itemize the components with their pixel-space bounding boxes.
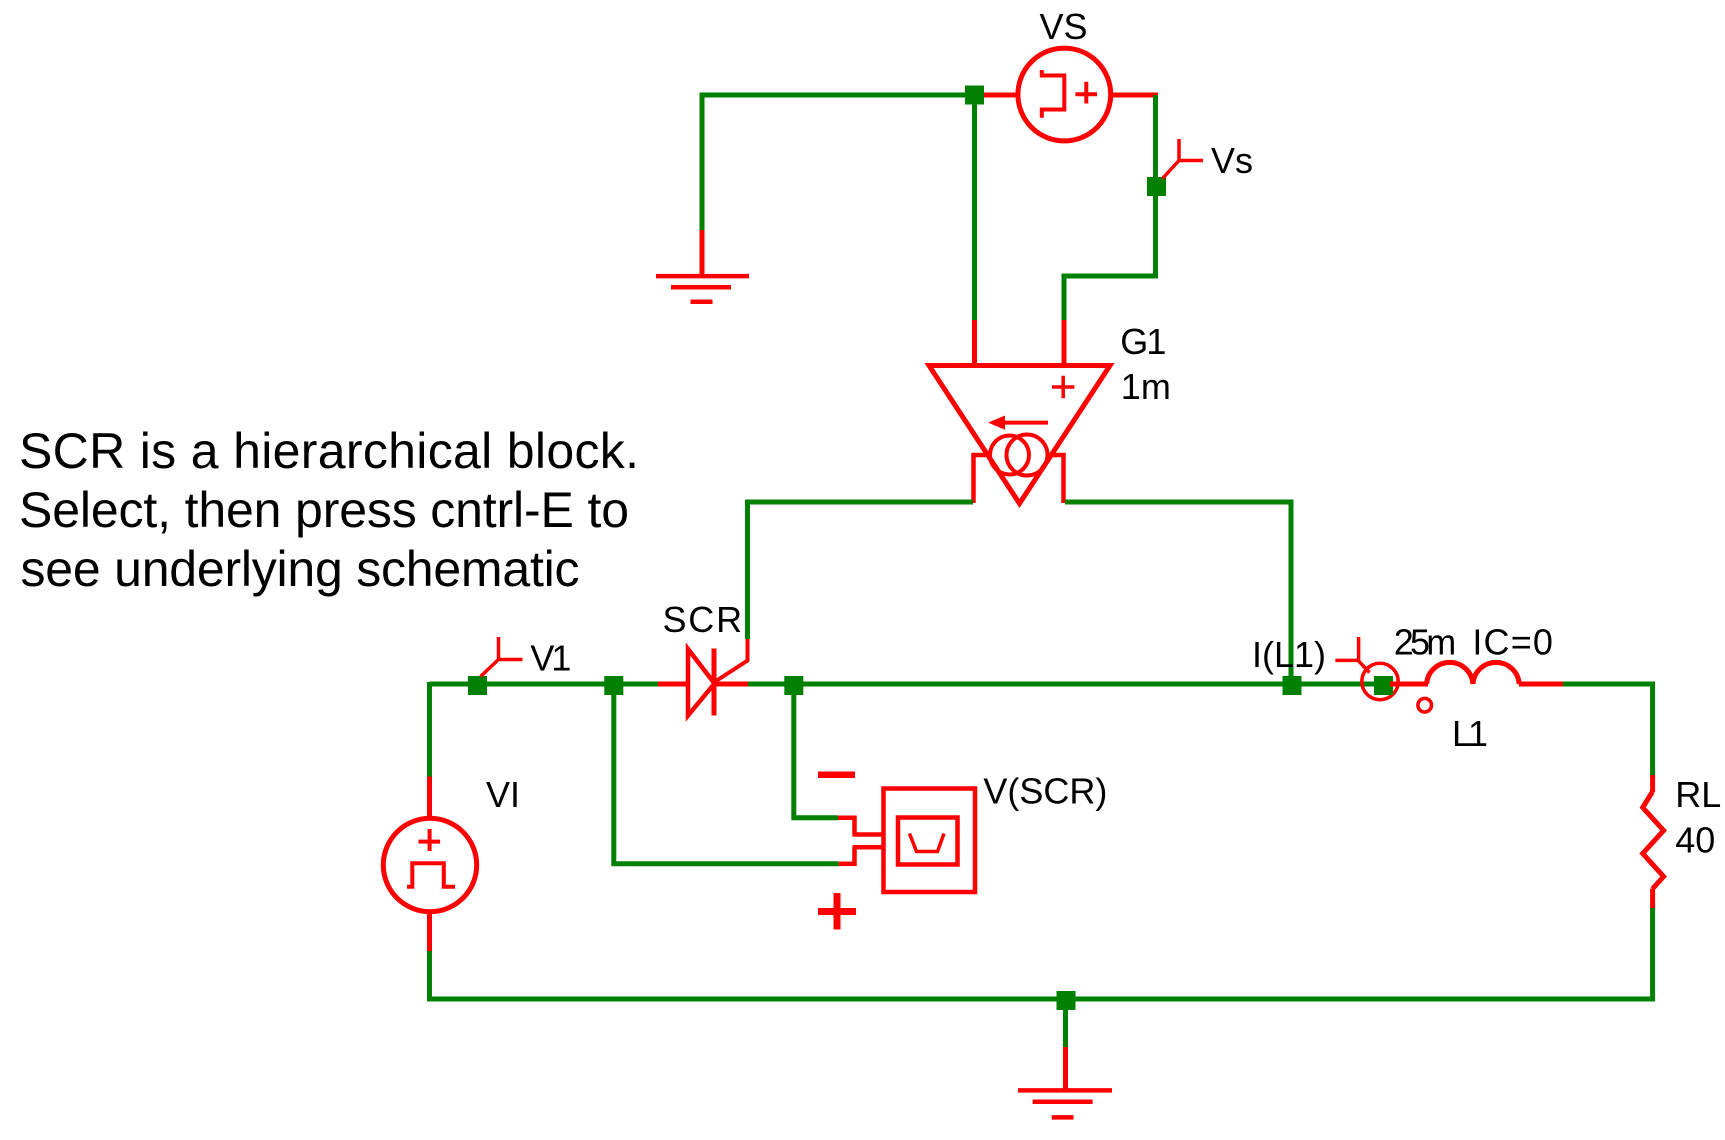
node junction I(L1) xyxy=(1283,676,1302,695)
resistor RL xyxy=(1643,775,1664,910)
wire xyxy=(1063,999,1068,1047)
svg-text:25m: 25m xyxy=(1394,622,1457,663)
wire xyxy=(1153,95,1158,276)
SCR xyxy=(658,639,748,716)
node junction xyxy=(1057,991,1076,1010)
svg-text:see underlying schematic: see underlying schematic xyxy=(21,541,580,597)
node junction V1 xyxy=(468,676,487,695)
wire xyxy=(430,951,1067,999)
svg-text:Select, then press cntrl-E to: Select, then press cntrl-E to xyxy=(19,482,629,538)
svg-text:1m: 1m xyxy=(1121,366,1171,407)
current source G1 xyxy=(929,320,1110,504)
svg-text:VS: VS xyxy=(1040,6,1088,47)
wire xyxy=(794,686,838,818)
wire xyxy=(430,682,663,687)
svg-text:V(SCR): V(SCR) xyxy=(983,771,1107,812)
wire xyxy=(744,682,1378,687)
svg-text:SCR is a hierarchical block.: SCR is a hierarchical block. xyxy=(19,423,639,479)
node junction xyxy=(1374,676,1393,695)
ground xyxy=(656,230,749,302)
probe V1 xyxy=(481,637,523,677)
wire xyxy=(614,686,839,864)
svg-text:IC=0: IC=0 xyxy=(1472,622,1553,663)
wire xyxy=(427,682,432,778)
node junction Vs xyxy=(1147,177,1166,196)
svg-text:I(L1): I(L1) xyxy=(1252,634,1326,675)
probe I(L1) xyxy=(1335,637,1398,700)
probe block V(SCR) xyxy=(818,775,975,930)
svg-text:VI: VI xyxy=(486,774,520,815)
probe Vs xyxy=(1163,139,1204,179)
node junction xyxy=(784,676,803,695)
wire xyxy=(1064,276,1158,322)
node junction xyxy=(604,676,623,695)
wire xyxy=(748,502,974,639)
svg-text:L1: L1 xyxy=(1452,713,1488,754)
voltage source VS xyxy=(984,48,1158,141)
svg-text:40: 40 xyxy=(1675,820,1715,861)
wire xyxy=(1563,684,1653,777)
node junction xyxy=(965,86,984,105)
ground xyxy=(1018,1047,1112,1117)
svg-text:SCR: SCR xyxy=(663,599,744,640)
wire xyxy=(702,95,974,232)
svg-text:G1: G1 xyxy=(1120,321,1166,362)
wire xyxy=(972,97,977,322)
svg-text:RL: RL xyxy=(1675,774,1721,815)
voltage source VI xyxy=(383,777,476,954)
svg-text:Vs: Vs xyxy=(1211,140,1253,181)
wire xyxy=(1064,908,1653,999)
svg-text:V1: V1 xyxy=(530,638,571,679)
wire xyxy=(1065,502,1291,678)
inductor L1 xyxy=(1390,662,1564,712)
